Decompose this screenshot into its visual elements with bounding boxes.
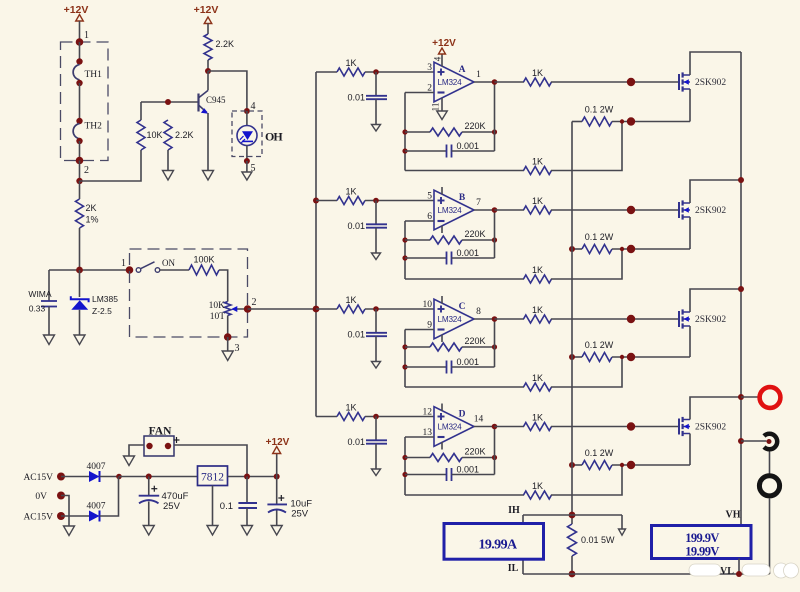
- resistor 0.1 2W (A): [572, 105, 690, 127]
- svg-text:12: 12: [423, 408, 433, 418]
- junction rail/IH: [569, 512, 576, 519]
- wire output (A): [474, 81, 495, 83]
- svg-text:1K: 1K: [532, 196, 543, 206]
- junction 0.001 left (C): [402, 364, 407, 369]
- wire feedback to source sense (C): [551, 357, 622, 387]
- svg-text:1K: 1K: [345, 295, 356, 305]
- ground (0.01 C): [372, 362, 381, 369]
- wire feedback left vertical (A): [404, 93, 406, 171]
- wire rail to 1K input (A): [316, 71, 337, 73]
- meter ammeter 19.99A: [444, 524, 544, 560]
- svg-text:2K: 2K: [86, 203, 97, 213]
- wire emitter down: [207, 113, 209, 171]
- resistor 1K gate (D): [495, 413, 552, 431]
- svg-text:0.001: 0.001: [457, 141, 480, 151]
- svg-text:7: 7: [476, 198, 481, 208]
- svg-text:14: 14: [474, 415, 484, 425]
- wire drain rail: [740, 52, 742, 526]
- svg-text:0.1 2W: 0.1 2W: [585, 340, 614, 350]
- svg-text:0.1: 0.1: [220, 501, 233, 512]
- wire junction to 10K bottom: [80, 150, 142, 181]
- wire FAN right to rail: [174, 445, 247, 477]
- wire source (C): [689, 326, 691, 357]
- wire gate row (C): [551, 318, 679, 320]
- op-amp U1B LM324: [427, 187, 481, 233]
- svg-text:1: 1: [84, 30, 89, 41]
- wire node5 to ground: [246, 161, 248, 172]
- svg-text:AC15V: AC15V: [23, 473, 53, 483]
- resistor 2.2K (collector load): [204, 34, 234, 60]
- switch ON: [136, 258, 175, 272]
- wire ref node row: [49, 269, 130, 271]
- junction 0.1/rail (B): [569, 246, 575, 252]
- resistor 1K gate (C): [495, 305, 552, 323]
- svg-text:LM324: LM324: [437, 423, 462, 432]
- resistor 0.1 2W (B): [572, 232, 690, 254]
- wire drain (C): [690, 289, 741, 312]
- junction 220K right (A): [492, 129, 497, 134]
- wire 100K to pot top: [219, 270, 228, 302]
- svg-text:10T: 10T: [210, 312, 226, 322]
- junction 0.001 left (A): [402, 148, 407, 153]
- potentiometer 10K 10T: [209, 301, 248, 322]
- resistor 220K (B): [405, 229, 495, 244]
- wire drain (A): [690, 52, 741, 75]
- junction output (D): [492, 424, 498, 430]
- junction ref node: [76, 267, 83, 274]
- svg-text:7812: 7812: [201, 472, 224, 484]
- svg-text:Z-2.5: Z-2.5: [92, 306, 112, 316]
- junction 0.1/rail (D): [569, 462, 575, 468]
- op-amp U1C LM324: [423, 296, 482, 342]
- svg-text:C: C: [459, 302, 466, 312]
- svg-text:LM324: LM324: [437, 206, 462, 215]
- wire 2K to ref node: [79, 228, 81, 270]
- ground (emitter): [203, 171, 214, 181]
- svg-text:OH: OH: [265, 130, 283, 144]
- wire VL stub: [738, 559, 740, 575]
- wire output (C): [474, 318, 495, 320]
- junction output (B): [492, 207, 498, 213]
- wire diode2 up to rail: [100, 477, 119, 517]
- LED D3 (OH indicator): [237, 126, 257, 146]
- connector FAN: [144, 426, 180, 457]
- svg-text:8: 8: [476, 307, 481, 317]
- wire - input (D): [405, 436, 434, 438]
- junction drain C: [738, 286, 744, 292]
- wire 1K to op-amp + (C): [365, 308, 434, 310]
- resistor 2K 1%: [76, 199, 99, 228]
- transistor QB 2SK902: [679, 200, 726, 219]
- svg-text:1K: 1K: [532, 305, 543, 315]
- resistor 1K feedback (C): [405, 373, 552, 391]
- node gate (A): [627, 78, 635, 86]
- junction VL: [736, 571, 742, 577]
- resistor 1K input (B): [337, 187, 365, 205]
- wire gate row (B): [551, 209, 679, 211]
- wire rail to 1K input (C): [316, 308, 337, 310]
- resistor 0.1 2W (C): [572, 340, 690, 362]
- wire output vertical (C): [494, 319, 496, 367]
- svg-text:C945: C945: [206, 95, 226, 105]
- node gate (B): [627, 206, 635, 214]
- resistor 10K (base divider): [137, 102, 163, 150]
- ground (0.01 D): [372, 469, 381, 476]
- wire AC15V to diode: [61, 476, 89, 478]
- dashed box control: [130, 249, 248, 337]
- junction 0.1/FAN: [244, 474, 250, 480]
- wire node3 to ground: [227, 337, 229, 351]
- svg-text:0.001: 0.001: [457, 357, 480, 367]
- svg-text:1K: 1K: [532, 265, 543, 275]
- capacitor 0.001 (B): [405, 248, 495, 265]
- svg-text:100K: 100K: [193, 255, 214, 265]
- junction source sense (D): [620, 463, 624, 467]
- ground (10uF): [271, 526, 282, 536]
- wire gate row (D): [551, 426, 679, 428]
- junction input/0.01 (A): [373, 69, 379, 75]
- svg-text:19.99A: 19.99A: [478, 538, 518, 553]
- node 1: [76, 30, 89, 46]
- svg-text:5: 5: [427, 192, 432, 202]
- wire base row: [141, 101, 199, 103]
- ground (FAN): [124, 456, 135, 466]
- svg-text:1: 1: [476, 70, 481, 80]
- resistor 1K feedback (D): [405, 481, 552, 499]
- arrow (IH end): [621, 515, 623, 529]
- capacitor 0.001 (C): [405, 357, 495, 374]
- junction +12V out: [274, 474, 280, 480]
- junction 220K left (A): [402, 129, 407, 134]
- wire input rail: [315, 72, 317, 417]
- wire gate row (A): [551, 81, 679, 83]
- junction source sense (C): [620, 355, 624, 359]
- svg-text:1%: 1%: [86, 215, 99, 225]
- wire TH1 to TH2: [79, 83, 81, 121]
- wire output (B): [474, 209, 495, 211]
- node 2 (wiper): [244, 297, 257, 313]
- svg-text:0.01: 0.01: [347, 330, 365, 340]
- wire - input (A): [405, 92, 434, 94]
- svg-text:3: 3: [235, 343, 240, 354]
- wire feedback left vertical (D): [404, 437, 406, 495]
- junction rail/B input: [313, 198, 319, 204]
- svg-text:1K: 1K: [345, 58, 356, 68]
- junction 470uF: [146, 474, 152, 480]
- junction 220K left (B): [402, 237, 407, 242]
- capacitor 0.001 (D): [405, 465, 495, 482]
- svg-text:4: 4: [433, 56, 443, 61]
- wire pot bottom to node 3: [227, 316, 229, 338]
- svg-text:1K: 1K: [532, 373, 543, 383]
- ground (7812): [207, 526, 218, 536]
- svg-text:LM385: LM385: [92, 294, 118, 304]
- ground (WIMA): [44, 335, 55, 345]
- resistor 0.01 5W shunt: [568, 524, 616, 556]
- junction drain D / V+: [738, 394, 744, 400]
- wire output (D): [474, 426, 495, 428]
- wire feedback to source sense (A): [551, 122, 622, 171]
- svg-text:2SK902: 2SK902: [695, 206, 726, 216]
- junction output (C): [492, 316, 498, 322]
- wire IH row: [523, 514, 622, 516]
- capacitor 10uF 25V: [267, 477, 312, 526]
- svg-text:2: 2: [84, 165, 89, 176]
- wire IL stub to ammeter: [522, 560, 524, 574]
- power +12V (collector branch): [194, 4, 219, 34]
- svg-text:3: 3: [427, 63, 432, 73]
- node 4: [244, 101, 256, 114]
- svg-text:10K: 10K: [147, 130, 163, 140]
- capacitor 0.01 (C): [347, 309, 387, 362]
- wire 0V to ground: [61, 496, 69, 527]
- decorative blobs (original watermark cover): [689, 563, 799, 578]
- resistor 2.2K (base pulldown): [164, 120, 194, 171]
- junction input/0.01 (D): [373, 414, 379, 420]
- wire to sense terminal: [741, 440, 767, 442]
- junction source sense (B): [620, 247, 624, 251]
- capacitor 470uF 25V: [139, 477, 189, 526]
- wire TH2 to node 2: [79, 141, 81, 161]
- svg-text:1K: 1K: [532, 413, 543, 423]
- svg-text:TH1: TH1: [85, 70, 103, 80]
- junction diode outputs: [116, 474, 122, 480]
- svg-text:0.01: 0.01: [347, 93, 365, 103]
- node 2: [76, 157, 89, 176]
- svg-text:A: A: [459, 65, 466, 75]
- svg-text:25V: 25V: [163, 501, 181, 512]
- svg-text:0.1 2W: 0.1 2W: [585, 232, 614, 242]
- svg-text:2SK902: 2SK902: [695, 423, 726, 433]
- wire rail to 1K input (B): [316, 200, 337, 202]
- power +12V (thermistor branch): [64, 4, 89, 42]
- svg-text:4007: 4007: [87, 462, 106, 472]
- svg-text:IH: IH: [508, 505, 520, 516]
- terminal AC15V (top): [23, 473, 65, 484]
- meter voltmeter: [652, 526, 752, 559]
- wire node2 down to junction: [79, 161, 81, 182]
- wire source (A): [689, 89, 691, 122]
- node gate (C): [627, 315, 635, 323]
- wire IL row: [523, 573, 770, 575]
- svg-text:220K: 220K: [464, 121, 485, 131]
- wire diode1 to rail junction: [100, 476, 120, 478]
- op-amp U1A LM324: [427, 38, 481, 120]
- junction 220K right (D): [492, 455, 497, 460]
- svg-text:0.01 5W: 0.01 5W: [581, 535, 615, 545]
- resistor 1K input (A): [337, 58, 365, 76]
- transistor QC 2SK902: [679, 309, 726, 328]
- wire 1K to op-amp + (A): [365, 71, 434, 73]
- svg-text:ON: ON: [162, 258, 175, 268]
- svg-text:LM324: LM324: [437, 315, 462, 324]
- svg-text:220K: 220K: [464, 447, 485, 457]
- svg-text:2.2K: 2.2K: [175, 130, 194, 140]
- svg-text:VH: VH: [726, 510, 741, 521]
- svg-text:VL: VL: [720, 566, 734, 577]
- svg-text:0.1 2W: 0.1 2W: [585, 105, 614, 115]
- wire 1K to op-amp + (D): [365, 416, 434, 418]
- zener D2 LM385 Z-2.5: [71, 270, 118, 335]
- ground (0.01 B): [372, 253, 381, 260]
- svg-text:0.33: 0.33: [29, 304, 46, 314]
- terminal sense (black open): [764, 434, 777, 450]
- svg-text:0.001: 0.001: [457, 248, 480, 258]
- wire junction to 2K: [79, 181, 81, 199]
- diode D1 4007: [87, 462, 106, 482]
- resistor 220K (D): [405, 447, 495, 462]
- ground (0.01 A): [372, 125, 381, 132]
- svg-text:220K: 220K: [464, 336, 485, 346]
- power +12V (PSU output): [266, 437, 290, 477]
- wire drain (B): [690, 180, 741, 203]
- wire switch to 100K: [160, 269, 190, 271]
- wire node4 to LED: [246, 111, 248, 126]
- svg-text:D: D: [459, 410, 466, 420]
- thermistor TH1: [73, 58, 102, 86]
- junction 220K right (B): [492, 237, 497, 242]
- svg-text:+12V: +12V: [194, 4, 219, 16]
- junction source sense (A): [620, 119, 624, 123]
- resistor 1K gate (A): [495, 68, 552, 86]
- svg-text:2SK902: 2SK902: [695, 315, 726, 325]
- node 1 (control input): [121, 258, 133, 274]
- svg-text:19.99V: 19.99V: [685, 545, 719, 559]
- wire node1 to TH1: [79, 42, 81, 62]
- transistor Q1 C945: [199, 71, 227, 114]
- wire to red terminal: [741, 396, 759, 398]
- thermistor TH2: [73, 118, 102, 144]
- wire feedback left vertical (C): [404, 330, 406, 388]
- svg-text:11: 11: [431, 103, 441, 112]
- svg-text:+12V: +12V: [266, 437, 290, 448]
- svg-text:1K: 1K: [345, 187, 356, 197]
- junction 0.1/rail (C): [569, 354, 575, 360]
- ground (LM385): [74, 335, 85, 345]
- node source (C): [627, 353, 635, 361]
- svg-text:2: 2: [252, 297, 257, 308]
- terminal V+ (red): [760, 387, 781, 408]
- wire PSU rail left: [119, 476, 198, 478]
- svg-text:+12V: +12V: [432, 38, 456, 49]
- svg-text:0.001: 0.001: [457, 465, 480, 475]
- wire feedback to source sense (D): [551, 465, 622, 495]
- junction 0.001 left (B): [402, 255, 407, 260]
- op-amp U1D LM324: [423, 404, 484, 450]
- resistor 220K (C): [405, 336, 495, 351]
- ground (pot): [222, 351, 233, 361]
- svg-text:WIMA: WIMA: [28, 289, 51, 299]
- svg-text:25V: 25V: [291, 509, 309, 520]
- diode D2 4007: [87, 502, 106, 522]
- svg-text:IL: IL: [508, 563, 519, 574]
- svg-text:LM324: LM324: [437, 78, 462, 87]
- wire V- terminal down to IL row: [769, 498, 771, 574]
- svg-text:1K: 1K: [532, 481, 543, 491]
- dashed box around TH1 TH2: [61, 42, 109, 161]
- svg-text:1K: 1K: [532, 157, 543, 167]
- junction collector node: [205, 68, 211, 74]
- capacitor 0.01 (B): [347, 201, 387, 254]
- resistor 1K input (C): [337, 295, 365, 313]
- capacitor 0.001 (A): [405, 141, 495, 158]
- svg-text:199.9V: 199.9V: [685, 531, 719, 545]
- svg-text:AC15V: AC15V: [23, 513, 53, 523]
- svg-text:B: B: [459, 193, 466, 203]
- junction 220K left (D): [402, 455, 407, 460]
- resistor 100K: [189, 255, 219, 276]
- resistor 1K feedback (A): [405, 157, 552, 175]
- resistor 1K input (D): [337, 403, 365, 421]
- svg-text:1K: 1K: [532, 68, 543, 78]
- wire feedback left vertical (B): [404, 221, 406, 279]
- svg-text:220K: 220K: [464, 229, 485, 239]
- wire rail to 1K input (D): [316, 416, 337, 418]
- svg-text:+12V: +12V: [64, 4, 89, 16]
- wire - input (C): [405, 329, 434, 331]
- wire shunt to IL row: [571, 556, 573, 574]
- wire 2.2K to collector junction: [207, 60, 209, 71]
- capacitor WIMA 0.33: [28, 270, 57, 335]
- capacitor 0.01 (A): [347, 72, 387, 125]
- junction base/2.2K: [165, 99, 171, 105]
- svg-text:0V: 0V: [35, 492, 47, 502]
- ground (OH): [242, 172, 252, 180]
- regulator U2 7812: [198, 466, 228, 486]
- wire source (B): [689, 217, 691, 249]
- wire output vertical (A): [494, 82, 496, 151]
- wire node2 to input rail: [248, 308, 316, 310]
- terminal AC15V (bottom): [23, 512, 65, 523]
- capacitor 0.01 (D): [347, 417, 387, 470]
- wire PSU rail right: [228, 476, 277, 478]
- svg-text:10: 10: [423, 300, 433, 310]
- capacitor 0.1: [220, 477, 257, 526]
- resistor 1K feedback (B): [405, 265, 552, 283]
- node source (D): [627, 461, 635, 469]
- wire output vertical (B): [494, 210, 496, 258]
- wire LED to node 5: [246, 146, 248, 162]
- resistor 1K gate (B): [495, 196, 552, 214]
- wire - input (B): [405, 220, 434, 222]
- junction output (A): [492, 79, 498, 85]
- transistor QA 2SK902: [679, 72, 726, 91]
- svg-text:TH2: TH2: [85, 122, 103, 132]
- node source (A): [627, 117, 635, 125]
- transistor QD 2SK902: [679, 417, 726, 436]
- junction node2/10K/2K: [76, 178, 82, 184]
- ground (470uF): [143, 526, 154, 536]
- resistor 220K (A): [405, 121, 495, 136]
- svg-text:4007: 4007: [87, 502, 106, 512]
- ground (2.2K): [163, 171, 174, 181]
- ground (0.1): [242, 526, 253, 536]
- svg-text:1K: 1K: [345, 403, 356, 413]
- wire feedback to source sense (B): [551, 249, 622, 279]
- wire 1K to op-amp + (B): [365, 200, 434, 202]
- junction 0.001 left (D): [402, 472, 407, 477]
- junction 220K right (C): [492, 344, 497, 349]
- wire output vertical (D): [494, 427, 496, 475]
- svg-text:2SK902: 2SK902: [695, 78, 726, 88]
- svg-text:10K: 10K: [209, 301, 226, 311]
- svg-text:1: 1: [121, 258, 126, 269]
- junction sense terminal: [738, 438, 744, 444]
- wire FAN left to ground: [129, 445, 144, 456]
- node 5: [244, 158, 256, 174]
- wire drain (D): [690, 397, 741, 420]
- wire source (D): [689, 434, 691, 466]
